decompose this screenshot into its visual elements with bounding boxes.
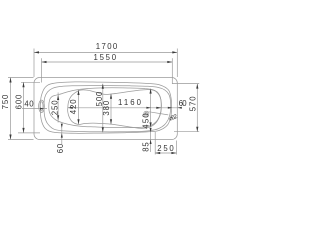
dim 1700 lines <box>34 51 177 53</box>
dim 250 bottom lines <box>155 152 176 154</box>
tub inner rim edge <box>40 82 171 133</box>
svg-text:380: 380 <box>102 100 111 115</box>
dim 250 left line <box>57 93 59 123</box>
drain inner <box>145 112 147 114</box>
arrows 1700 <box>34 51 39 53</box>
arrow 40 <box>40 108 44 110</box>
svg-text:750: 750 <box>1 94 10 109</box>
drain flange arc <box>144 114 148 117</box>
svg-text:1550: 1550 <box>94 53 117 62</box>
overflow outer <box>39 100 45 112</box>
svg-text:450: 450 <box>141 113 150 129</box>
arrows 420 <box>77 90 79 95</box>
svg-text:1160: 1160 <box>118 98 142 107</box>
drain label leader <box>149 112 168 115</box>
dim 40 leader <box>22 108 47 110</box>
dim 570 lines <box>196 84 198 132</box>
arrows 750 <box>9 78 11 83</box>
arrow at drain line <box>146 107 151 109</box>
svg-text:570: 570 <box>188 96 197 111</box>
dim 380 line <box>110 94 112 125</box>
arrows 500 <box>102 84 104 89</box>
dim 750 lines <box>10 78 12 140</box>
svg-text:40: 40 <box>24 100 34 109</box>
basin bottom outline <box>68 90 162 129</box>
basin top opening <box>44 86 171 132</box>
arrows 250 left <box>57 95 59 100</box>
dim 60 right line <box>161 107 179 109</box>
dim 1160 line <box>68 107 162 109</box>
dim 60 bottom-left line <box>61 125 63 145</box>
arrows 570 <box>196 84 198 89</box>
svg-text:1700: 1700 <box>96 42 118 51</box>
svg-text:85: 85 <box>142 142 151 152</box>
arrows 60 right <box>168 107 173 109</box>
svg-text:420: 420 <box>69 99 78 114</box>
overflow inner <box>40 102 43 111</box>
dim 450 line <box>150 89 152 128</box>
arrows 250 bottom <box>155 152 160 154</box>
arrows 1160 <box>68 107 73 109</box>
drain outer <box>144 111 149 115</box>
svg-text:250: 250 <box>157 144 174 153</box>
dim 500 line <box>102 84 104 133</box>
dim 1550 lines <box>42 61 173 63</box>
arrows 1550 <box>42 61 47 63</box>
arrows 85 <box>150 128 152 133</box>
svg-text:600: 600 <box>15 94 24 109</box>
dim 600 lines <box>23 82 25 133</box>
basin mid slope line <box>49 88 161 128</box>
svg-text:250: 250 <box>51 100 60 115</box>
arrows 60 bottom-left <box>61 124 63 129</box>
svg-text:60: 60 <box>56 143 65 153</box>
tub outer rim <box>34 78 177 140</box>
svg-text:60: 60 <box>179 99 188 108</box>
arrows 600 <box>22 82 24 87</box>
arrows 450 <box>150 89 152 94</box>
dim 85 line <box>150 128 152 152</box>
dim 420 line <box>78 90 80 124</box>
arrows 380 <box>110 94 112 99</box>
